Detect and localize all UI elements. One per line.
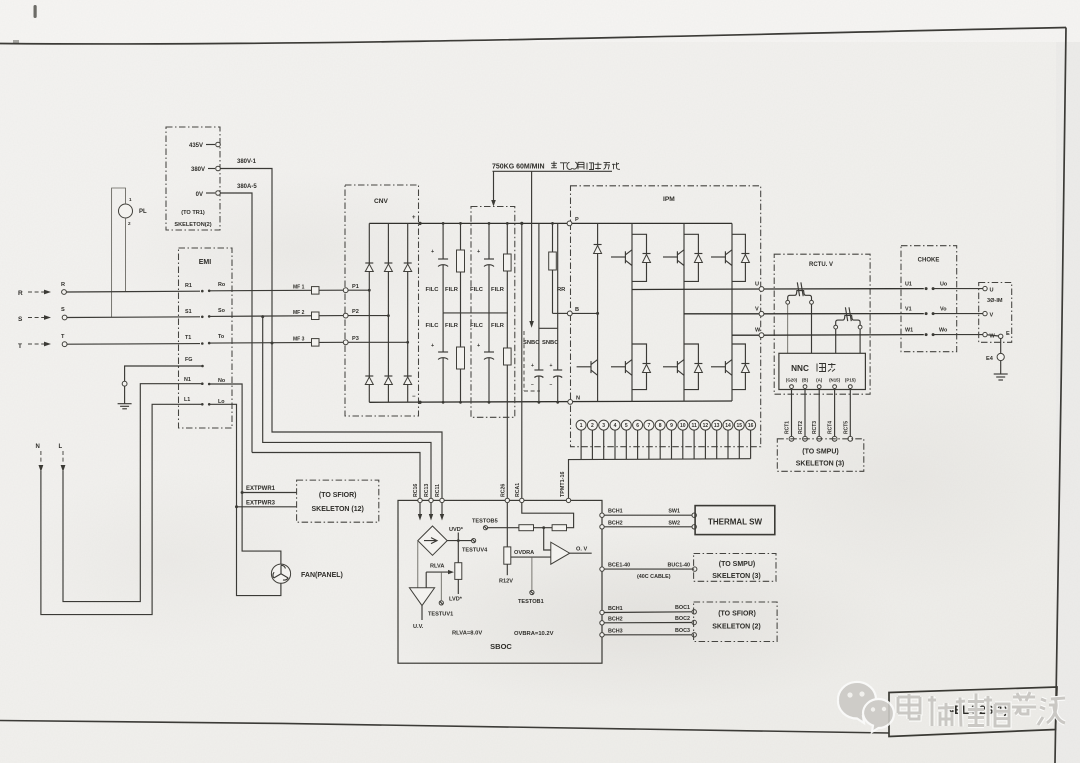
svg-text:2: 2 [591,423,594,429]
svg-text:To: To [218,334,225,340]
svg-text:BOC2: BOC2 [675,616,690,622]
connector box (TO SMPU) SKELETON (3) lower [694,554,776,582]
wire BCH2 to BOC2 [604,622,692,624]
junction P bus sense RCA1 [520,222,523,225]
svg-text:16: 16 [748,423,754,429]
capacitor FILC A lower [442,313,444,352]
wire So tap down [263,317,431,501]
wire EXTPWR1 [242,492,297,494]
svg-text:+: + [412,215,416,221]
svg-text:5: 5 [625,423,628,429]
connector comb wires [581,430,751,459]
pin RC16 [418,498,422,502]
diode DU2 [694,255,702,263]
svg-text:SKELETON(2): SKELETON(2) [174,222,211,228]
svg-text:THERMAL SW: THERMAL SW [708,518,763,527]
IPM module box [571,186,761,447]
svg-text:15: 15 [737,423,743,429]
wire RC26 sense [506,365,508,500]
pin BCH2 upper [600,525,604,529]
svg-text:FILR: FILR [445,323,459,329]
wire RLVA tap [426,571,448,573]
svg-text:(TO TR1): (TO TR1) [181,210,205,216]
resistor OVDRA [504,547,511,564]
svg-text:380V: 380V [191,167,205,173]
note underline [493,170,613,172]
svg-text:SBOC: SBOC [490,642,512,651]
pin BCH3 lower [600,633,604,637]
svg-text:SKELETON (3): SKELETON (3) [796,461,845,468]
scan speck top-left [34,5,37,18]
svg-text:BCH2: BCH2 [608,616,623,622]
connector pins 1-16 [576,420,756,430]
svg-text:−: − [550,382,553,388]
wire BCH3 to BOC3 [604,634,692,636]
title block box [889,687,1057,737]
svg-text:4: 4 [614,423,617,429]
fan FAN(PANEL) [271,564,290,583]
wire So to P2 [209,315,343,318]
svg-text:RC11: RC11 [435,484,441,497]
svg-text:U: U [990,288,994,294]
svg-text:T: T [61,334,65,340]
wire B node [572,312,597,314]
svg-text:TESTUV1: TESTUV1 [428,612,453,618]
junction dots P1/P2/P3 [368,289,371,292]
test point TESTUV1 [439,601,443,605]
terminal P2 [343,313,348,318]
wire FG to ground [125,366,203,381]
svg-text:+: + [550,363,553,369]
wire CT-V to NNC [835,329,837,353]
svg-text:TESTOB5: TESTOB5 [472,519,498,525]
svg-text:RCT2: RCT2 [798,421,804,434]
terminal U [759,287,764,292]
svg-text:UVD*: UVD* [449,527,464,533]
wire BCH2 to SW2 [604,526,692,528]
comparator U.V [409,588,434,606]
wire L1 loop to N arrow [41,404,202,614]
wire bridge out [447,540,471,542]
leg2 lower diode bracket [684,344,698,390]
wire PL pin1 to S phase [112,188,126,317]
svg-text:PL: PL [139,209,147,215]
motor terminal W [983,332,987,336]
diode DL2 [694,365,702,373]
svg-text:+: + [477,343,480,349]
junction EXTPWR1 [241,491,244,494]
brake chopper leg [597,223,599,401]
svg-text:8: 8 [659,423,662,429]
svg-text:V1: V1 [905,307,912,313]
diode D5 [384,377,392,385]
svg-text:V: V [755,306,759,312]
leg2 upper diode bracket [684,234,698,281]
svg-text:E4: E4 [986,356,994,362]
junction To/380V-1 tap [271,342,274,345]
wire BCH1 to SW1 [604,514,692,516]
node L arrow [61,465,66,472]
wire V rail [684,313,762,315]
svg-text:SKELETON (2): SKELETON (2) [712,624,761,631]
terminal B [567,311,572,316]
svg-text:TESTUV4: TESTUV4 [462,548,488,554]
svg-text:S: S [18,316,23,323]
svg-text:T: T [18,343,22,350]
rectifier leg 3 [407,223,409,402]
svg-text:Ro: Ro [218,282,226,288]
wire Lo to FAN return [209,404,281,595]
svg-text:CNV: CNV [374,198,389,205]
leg3 upper diode bracket [732,234,745,281]
svg-text:(N15): (N15) [829,378,841,383]
wire BCE1-40 [604,568,692,570]
bus junction dots [442,222,445,225]
terminal 435V [206,144,215,146]
watermark logo [838,682,894,732]
svg-text:BCH3: BCH3 [608,628,623,634]
svg-text:E: E [1006,331,1010,337]
svg-text:SW2: SW2 [668,520,680,526]
svg-text:FILC: FILC [426,287,440,293]
svg-text:BOC3: BOC3 [675,628,690,634]
resistor FILR B lower [460,313,462,347]
svg-text:12: 12 [703,423,709,429]
wire RC26 into board [506,503,508,547]
pin RC11 [440,498,444,502]
svg-text:10: 10 [680,423,686,429]
brake diode [594,246,602,254]
svg-text:N: N [36,444,40,450]
svg-text:O. V: O. V [576,547,587,553]
thermal switch box [692,513,696,517]
svg-text:FILR: FILR [491,287,505,293]
diode DL3 [741,365,749,373]
transistor Q2 [663,256,677,258]
pin RC26 [505,498,509,502]
pin BCE1-40 [600,567,604,571]
terminal N [568,400,573,405]
wire RCA1 to chain [522,503,574,528]
svg-text:RCT3: RCT3 [812,421,818,434]
capacitor FILC A upper [442,223,444,259]
transistor Q4 [611,366,625,368]
junction So tap [261,315,264,318]
svg-text:R: R [18,290,23,297]
wire RCT1 [791,389,793,437]
test point TESTUV4 [472,539,476,543]
svg-text:RC13: RC13 [424,484,430,497]
svg-text:V: V [990,313,994,319]
wire divider low to opamp [511,556,551,558]
svg-text:Uo: Uo [940,282,948,288]
node - [418,401,421,404]
choke box CHOKE [901,246,957,352]
svg-text:(G20): (G20) [786,378,798,383]
svg-text:FILR: FILR [491,323,505,329]
wire RCA1 sense [521,223,523,500]
diode D6 [404,377,412,385]
wire P2 to diode leg2 [348,315,388,317]
diode D3 [404,264,412,272]
resistor OB1 [519,525,534,531]
wire P1 to diode leg1 [348,289,369,291]
capacitor FILC C lower [488,313,490,352]
wire to comparator [425,572,427,588]
arrows into SBOC [419,503,421,515]
page top border [0,28,1066,44]
wire V phase to choke [764,313,924,315]
wire To to P3 [209,341,343,344]
wire RCT2 [804,389,806,437]
sensor unit NNC [779,353,866,389]
leg3 lower diode bracket [732,344,745,390]
svg-text:11: 11 [691,423,697,429]
svg-text:RCT1: RCT1 [785,421,791,434]
capacitor FILC C upper [488,223,490,259]
terminal P3 [343,340,348,345]
converter box CNV [345,185,419,416]
svg-text:TESTOB1: TESTOB1 [518,599,544,605]
op-amp O.V [551,542,570,564]
svg-text:+: + [531,363,534,369]
current transformer CT-U [797,282,799,296]
motor box 3phase IM [979,283,1012,343]
svg-text:3: 3 [602,423,605,429]
test point TESTOB1 [531,557,533,590]
optional filter dashed box [471,207,515,418]
svg-text:S: S [61,307,65,313]
current transformer CT-V [845,307,847,321]
wire N1 loop to L arrow [63,384,202,602]
resistor FILR D upper [506,223,508,254]
svg-text:OVBRA=10.2V: OVBRA=10.2V [514,631,554,637]
lamp PL [119,204,133,218]
terminal 380V [208,168,215,170]
pointer to SNBC [531,171,533,322]
svg-text:FILC: FILC [426,323,440,329]
svg-text:U.V.: U.V. [413,624,424,630]
svg-text:IPM: IPM [663,196,675,203]
svg-text:SNBC: SNBC [542,340,559,346]
svg-text:RCT4: RCT4 [828,421,834,434]
svg-text:3Ø-IM: 3Ø-IM [987,298,1003,304]
wire divider to opamp [544,528,551,550]
svg-text:+: + [431,249,434,255]
fuse MF1 [312,287,320,295]
page bottom border [0,721,889,734]
svg-text:No: No [218,378,226,384]
svg-text:L: L [59,444,63,450]
svg-text:13: 13 [714,423,720,429]
svg-text:OVDRA: OVDRA [514,550,534,556]
svg-text:N: N [576,396,580,402]
svg-text:W: W [990,334,996,340]
wire RCT3 [818,389,820,437]
svg-text:+: + [477,249,480,255]
DC bus N rail [369,401,732,402]
terminal E4 [997,353,1004,360]
wire U rail [632,288,762,291]
svg-text:RLVA=8.0V: RLVA=8.0V [452,631,482,637]
svg-text:BCH2: BCH2 [608,520,623,526]
svg-text:FILC: FILC [470,287,484,293]
svg-text:P2: P2 [352,309,359,315]
svg-text:MF 2: MF 2 [293,310,305,316]
svg-text:EXTPWR1: EXTPWR1 [246,486,276,492]
svg-text:BUC1-40: BUC1-40 [668,562,690,568]
svg-text:R12V: R12V [499,579,513,585]
svg-text:BCH1: BCH1 [608,509,623,515]
svg-text:6: 6 [636,423,639,429]
svg-text:−: − [412,394,416,400]
resistor RLVA [455,563,462,580]
wire ob chain [488,527,519,529]
junction EXTPWR3 [235,505,238,508]
svg-text:RCT5: RCT5 [843,421,849,434]
snubber cap 1 [538,223,540,370]
resistor FILR D lower [506,313,508,348]
svg-text:TPMT1-16: TPMT1-16 [560,472,566,497]
resistor OB2 [552,525,566,531]
current sensor box RCTU.V [774,254,870,394]
snubber cap 2 [557,223,559,370]
fuse MF3 [312,339,320,347]
svg-text:7: 7 [648,423,651,429]
transistor Q5 [663,366,677,368]
diode DU1 [643,255,651,263]
resistor FILR B upper [460,223,462,250]
svg-text:14: 14 [725,423,731,429]
svg-text:T1: T1 [185,335,191,341]
transistor Q6 [711,366,725,368]
wire W phase to choke [764,334,924,337]
terminal 0V [206,192,215,194]
svg-text:0V: 0V [196,192,203,198]
svg-text:SW1: SW1 [668,509,680,515]
inverter leg 1 [631,223,633,401]
diode D4 [365,377,373,385]
svg-text:FAN(PANEL): FAN(PANEL) [301,572,343,579]
svg-text:9: 9 [670,423,673,429]
wire 380A-5 to RC16 [252,453,420,501]
svg-text:1: 1 [129,197,132,202]
wire R to EMI [66,290,200,293]
svg-text:P3: P3 [352,336,359,342]
svg-text:R1: R1 [185,283,192,289]
transistor Q7 brake IGBT [577,366,591,368]
wire S to EMI [67,316,200,319]
fuse MF2 [312,312,320,320]
svg-text:R: R [61,282,65,288]
svg-text:1: 1 [580,423,583,429]
motor terminal V [983,311,987,315]
svg-text:Vo: Vo [940,307,947,313]
pin TPMT junction [566,498,570,502]
leg1 upper diode bracket [632,234,647,281]
wire CT-U to NNC [787,304,789,353]
svg-text:LVD*: LVD* [449,597,463,603]
connector box (TO SFIOR) SKELETON (2) [694,602,778,642]
EMI filter box [179,248,233,428]
wire Ro to P1 [209,289,343,292]
DC bus P rail [369,222,732,224]
svg-text:BCH1: BCH1 [608,606,623,612]
svg-text:U1: U1 [905,282,912,288]
svg-text:U: U [755,282,759,288]
diode D1 [365,264,373,272]
svg-text:P: P [575,217,579,223]
svg-text:380A-5: 380A-5 [237,184,257,190]
svg-text:RC16: RC16 [413,484,419,497]
svg-text:So: So [218,308,226,314]
svg-text:SKELETON (3): SKELETON (3) [712,573,761,580]
wire U phase to choke [764,288,924,290]
svg-text:(40C CABLE): (40C CABLE) [637,574,671,580]
wire T to EMI [67,343,200,346]
resistor RR [552,223,554,252]
wire E to E4 [1000,339,1002,354]
svg-text:EXTPWR3: EXTPWR3 [246,500,276,506]
svg-text:CHOKE: CHOKE [918,258,940,264]
wire RCT4 [834,389,836,437]
svg-text:−: − [531,382,534,388]
wire EXTPWR3 [237,506,297,508]
wire W to E [987,335,998,336]
svg-text:750KG 60M/MIN: 750KG 60M/MIN [492,164,545,171]
transistor Q1 [611,256,625,258]
wire RR to B [553,312,569,314]
wire To tap down [272,343,442,500]
transistor Q3 [711,256,725,258]
svg-text:BOC1: BOC1 [675,605,690,611]
terminal P [567,221,572,226]
wire No to EXTPWR/FAN [209,384,281,564]
filter mid rail [443,312,508,314]
pin BCH1 lower [600,610,604,614]
ground E4 [1000,361,1002,374]
rectifier bridge diamond [418,526,447,555]
motor terminal U [983,286,987,290]
svg-text:MF 3: MF 3 [293,337,305,343]
page right border [1055,28,1066,763]
svg-text:L1: L1 [184,397,190,403]
pin RC13 [429,498,433,502]
wire comb bus to SBOC [569,459,751,499]
pin BCH1 upper [600,513,604,517]
wire RCT5 [849,389,851,437]
node + [418,222,421,225]
connector box (TO SFIOR) SKELETON (12) [297,480,379,522]
svg-text:SNBC: SNBC [523,340,540,346]
svg-text:(TO SMPU): (TO SMPU) [802,449,838,456]
wire BCH1 to BOC1 [604,611,692,614]
diode DL1 [643,365,651,373]
wire P3 to diode leg3 [348,341,408,343]
node N arrow [39,465,44,472]
svg-text:RLVA: RLVA [430,564,444,570]
pin RCA1 [520,498,524,502]
diode D2 [384,264,392,272]
wire 380V-1 [220,169,272,344]
connector box (TO TR1) SKELETON(2) [166,127,220,230]
svg-text:RCA1: RCA1 [515,483,521,497]
wire PL pin2 to R phase [125,218,128,292]
svg-text:FILC: FILC [470,323,484,329]
svg-text:EMI: EMI [199,259,212,266]
svg-text:FILR: FILR [445,287,459,293]
ground (FG) [122,381,127,386]
